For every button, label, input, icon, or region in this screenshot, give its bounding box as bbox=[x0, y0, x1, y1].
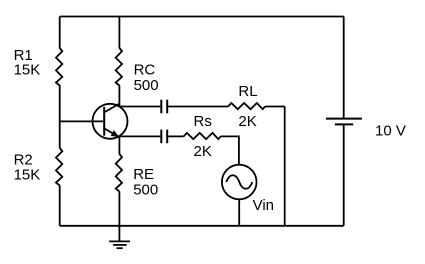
battery V1 long plate bbox=[326, 118, 362, 120]
wire RL to right drop bbox=[265, 106, 285, 108]
resistor Rs bbox=[184, 133, 221, 139]
transistor Q1 collector stroke bbox=[104, 104, 119, 113]
ground bar 3 bbox=[117, 247, 123, 249]
svg-text:2K: 2K bbox=[194, 143, 212, 160]
capacitor C2 left plate bbox=[160, 130, 162, 144]
wire base lead bbox=[60, 120, 104, 122]
battery V1 short plate bbox=[335, 123, 353, 125]
resistor RC bbox=[116, 48, 122, 86]
svg-text:500: 500 bbox=[134, 77, 159, 94]
capacitor C2 right plate bbox=[166, 130, 168, 144]
wire RC top lead bbox=[118, 17, 120, 49]
wire right drop vertical bbox=[284, 107, 286, 226]
transistor Q1 circle bbox=[93, 104, 128, 139]
transistor Q1 emitter arrow bbox=[111, 130, 120, 137]
svg-text:10 V: 10 V bbox=[375, 122, 406, 139]
wire left rail between R1 and base tap bbox=[59, 85, 61, 148]
wire C1 to RL bbox=[168, 106, 228, 108]
svg-text:Rs: Rs bbox=[194, 113, 212, 130]
resistor R1 bbox=[56, 48, 62, 86]
svg-text:2K: 2K bbox=[238, 113, 256, 130]
wire battery bottom lead bbox=[343, 124, 345, 225]
resistor RE bbox=[116, 154, 122, 192]
svg-text:500: 500 bbox=[133, 181, 158, 198]
resistor R2 bbox=[56, 148, 62, 186]
capacitor C1 left plate bbox=[160, 100, 162, 114]
svg-text:Vin: Vin bbox=[253, 197, 274, 214]
svg-text:15K: 15K bbox=[14, 166, 41, 183]
wire RC bottom lead to collector node bbox=[118, 86, 120, 107]
wire battery top lead bbox=[343, 17, 345, 119]
wire emitter to C2 bbox=[119, 135, 160, 137]
transistor Q1 emitter stroke bbox=[104, 128, 119, 137]
wire emitter down to RE bbox=[118, 136, 120, 154]
wire Vin bottom lead bbox=[238, 199, 240, 226]
transistor Q1 base bar bbox=[103, 107, 105, 136]
wire top rail bbox=[60, 16, 344, 18]
ground bar 1 bbox=[109, 240, 130, 242]
wire RE bottom lead bbox=[118, 192, 120, 226]
svg-text:RL: RL bbox=[238, 83, 257, 100]
wire collector to C1 bbox=[119, 106, 160, 108]
wire bottom rail bbox=[60, 225, 344, 227]
wire Rs to Vin corner bbox=[221, 136, 239, 165]
svg-text:15K: 15K bbox=[14, 62, 41, 79]
ground bar 2 bbox=[113, 244, 127, 246]
wire left rail above R1 bbox=[59, 17, 61, 49]
ground stem bbox=[118, 226, 120, 242]
source Vin circle bbox=[222, 165, 257, 200]
wire left rail below R2 bbox=[59, 186, 61, 226]
source Vin sine wave bbox=[226, 175, 252, 189]
resistor RL bbox=[228, 103, 265, 109]
wire C2 to Rs bbox=[168, 135, 184, 137]
capacitor C1 right plate bbox=[166, 100, 168, 114]
